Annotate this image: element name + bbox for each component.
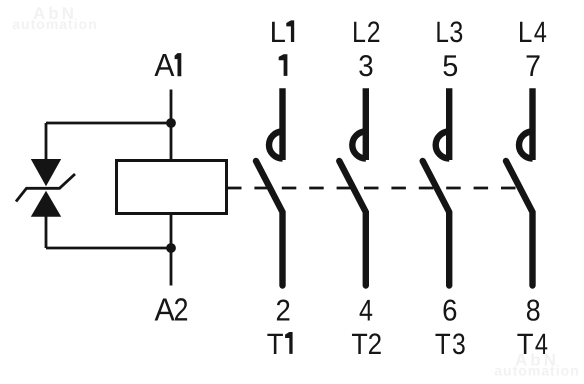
contact pole 3: moving blade and bottom terminal line bbox=[423, 161, 450, 286]
svg-text:L: L bbox=[518, 16, 533, 49]
surge suppressor: lower diode triangle bbox=[31, 191, 61, 217]
wire suppressor branch lower bbox=[45, 216, 48, 248]
svg-text:L: L bbox=[435, 16, 449, 49]
svg-text:A: A bbox=[154, 47, 175, 83]
contact pole 3: fixed contact arc bbox=[436, 132, 450, 159]
contact pole 3: fixed terminal line (top) bbox=[446, 88, 452, 160]
junction node bottom bbox=[166, 243, 176, 253]
contact pole 1: fixed contact arc bbox=[269, 132, 283, 159]
junction node top bbox=[166, 118, 176, 128]
svg-text:T: T bbox=[267, 328, 284, 361]
svg-text:automation: automation bbox=[12, 16, 97, 32]
contact pole 1: fixed terminal line (top) bbox=[279, 88, 285, 160]
svg-text:L: L bbox=[352, 16, 366, 49]
svg-text:2: 2 bbox=[174, 292, 189, 328]
svg-text:7: 7 bbox=[525, 50, 541, 83]
mechanical linkage (dashed) bbox=[227, 187, 517, 190]
wire top horizontal bbox=[46, 122, 171, 125]
contact pole 2: fixed terminal line (top) bbox=[363, 88, 369, 160]
svg-text:3: 3 bbox=[358, 50, 373, 83]
contact pole 4: fixed terminal line (top) bbox=[529, 88, 535, 160]
contact pole 4: fixed contact arc bbox=[519, 132, 533, 159]
svg-text:T: T bbox=[351, 328, 367, 361]
svg-text:T: T bbox=[435, 328, 451, 361]
svg-text:2: 2 bbox=[367, 16, 381, 49]
surge suppressor: upper diode triangle bbox=[31, 159, 61, 186]
contact pole 4: moving blade and bottom terminal line bbox=[506, 161, 533, 286]
wire suppressor branch upper bbox=[45, 123, 48, 160]
svg-text:2: 2 bbox=[275, 294, 290, 327]
wire A2 vertical bbox=[170, 215, 173, 286]
contact pole 1: moving blade and bottom terminal line bbox=[256, 161, 283, 286]
svg-text:2: 2 bbox=[368, 328, 382, 361]
contact pole 2: moving blade and bottom terminal line bbox=[339, 161, 366, 286]
svg-text:4: 4 bbox=[534, 16, 547, 49]
svg-text:4: 4 bbox=[359, 294, 373, 327]
svg-text:8: 8 bbox=[526, 294, 541, 327]
contactor coil bbox=[117, 161, 227, 214]
svg-text:T: T bbox=[517, 328, 534, 361]
svg-text:4: 4 bbox=[535, 328, 548, 361]
wire bottom horizontal bbox=[46, 247, 171, 250]
wire A1 vertical bbox=[170, 90, 173, 161]
surge suppressor: zener crossbar with tails bbox=[16, 174, 75, 202]
svg-text:6: 6 bbox=[442, 294, 457, 327]
svg-text:3: 3 bbox=[452, 328, 466, 361]
label terminal 1 bbox=[279, 54, 288, 76]
contact pole 2: fixed contact arc bbox=[352, 132, 366, 159]
svg-text:automation: automation bbox=[494, 363, 579, 379]
svg-text:A: A bbox=[155, 292, 176, 328]
svg-text:3: 3 bbox=[449, 16, 463, 49]
svg-text:L: L bbox=[270, 16, 286, 49]
svg-text:5: 5 bbox=[442, 50, 458, 83]
